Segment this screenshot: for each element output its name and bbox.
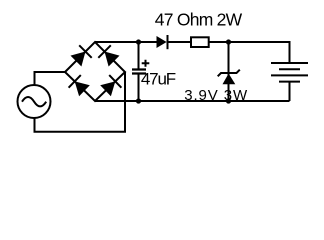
svg-text:47uF: 47uF [141,70,176,89]
svg-text:47 Ohm 2W: 47 Ohm 2W [155,10,243,30]
svg-text:3.9V 3W: 3.9V 3W [184,87,248,104]
